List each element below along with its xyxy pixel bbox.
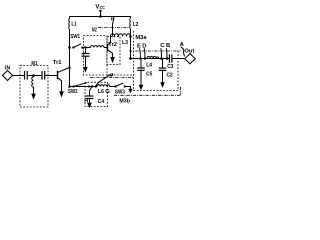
wire pin D (143, 48, 146, 58)
svg-text:C5: C5 (146, 71, 153, 77)
ground Tr2 emitter (110, 57, 115, 63)
svg-text:C2: C2 (167, 72, 173, 78)
box M3a dashed (134, 31, 179, 91)
wire output line left (131, 58, 170, 60)
capacitor M1 second (41, 71, 43, 80)
inductor L2 (129, 17, 132, 37)
wire pin C (160, 48, 163, 58)
pin D label (142, 43, 146, 49)
svg-text:L6: L6 (98, 89, 105, 95)
chip boundary chain lower-left (90, 77, 134, 79)
wire pin F from rail to L3 node (113, 17, 115, 37)
pin A label (180, 42, 185, 48)
M2 label (92, 27, 97, 33)
pin E label (137, 43, 141, 49)
M3a label (135, 35, 147, 41)
node SW1 junction (68, 46, 71, 49)
node L2/L3/F junction (129, 35, 132, 38)
port Out diamond (185, 54, 195, 64)
ground C2 (160, 82, 165, 88)
capacitor C5 (140, 59, 142, 68)
switch SW2 (72, 85, 74, 87)
wire pin A (181, 47, 185, 57)
node SW2 junction (68, 85, 71, 88)
chip boundary chain right (180, 87, 182, 95)
wire pin G curve (96, 73, 113, 86)
node Tr1 collector junction (68, 66, 71, 69)
chip boundary chain bottom (114, 94, 181, 96)
box L6/C4 dashed (85, 82, 108, 106)
switch SW3 (114, 85, 116, 87)
node output left (129, 57, 132, 60)
transistor Tr2 label (108, 42, 117, 48)
wire Vcc stub (100, 11, 102, 17)
transistor Tr1 label (53, 60, 62, 66)
ground Tr1 emitter (59, 91, 64, 97)
capacitor C3 series (168, 54, 170, 62)
wire C3 to Out (172, 58, 185, 60)
capacitor M2 shunt (85, 48, 87, 54)
wire SW1 to M2 (82, 47, 90, 49)
pin C label (160, 43, 165, 49)
wire SW2 to L6 (70, 86, 98, 88)
ground C5 (139, 85, 144, 91)
capacitor M1 first (24, 71, 26, 80)
ground M1 shunt (31, 94, 36, 100)
node M1 junction (32, 74, 35, 77)
switch SW2 label (68, 89, 78, 95)
box Tr2 dashed (107, 37, 120, 65)
inductor M2 series (91, 46, 108, 48)
svg-text:SW3: SW3 (115, 89, 126, 95)
capacitor C4 branch (90, 87, 93, 96)
svg-text:Tr1: Tr1 (53, 60, 62, 66)
svg-text:C3: C3 (167, 64, 174, 70)
node C4 junction (91, 85, 93, 87)
wire M1 to Tr1 base (45, 75, 57, 77)
wire pin E (139, 48, 140, 58)
svg-text:M3a: M3a (135, 35, 147, 41)
pin B label (166, 43, 170, 49)
node G junction (95, 85, 97, 87)
node M2 cap junction (84, 46, 86, 48)
wire SW3 to stub (125, 87, 131, 89)
ground SW3 stub (128, 89, 132, 94)
wire collector node to output line (130, 37, 132, 59)
M2 bottom chain extension (107, 74, 134, 76)
node D (144, 57, 147, 60)
transistor Tr1 (57, 71, 59, 79)
transistor Tr2 (107, 44, 109, 52)
wire pin B (165, 48, 168, 58)
capacitor C2 (162, 59, 164, 68)
svg-text:CC: CC (100, 5, 105, 10)
wire M1 mid (27, 75, 42, 77)
inductor M1 shunt (32, 76, 34, 94)
wire collector node down to SW2 (69, 48, 71, 87)
inductor L6 (97, 85, 116, 87)
port IN diamond (3, 71, 13, 81)
svg-text:SW2: SW2 (68, 89, 78, 95)
svg-text:SW1: SW1 (70, 34, 80, 40)
svg-text:L1: L1 (71, 21, 77, 27)
M3b label (119, 99, 130, 105)
node E (139, 57, 142, 60)
wire top rail (70, 16, 131, 18)
Vcc label (95, 4, 105, 10)
box M1 dashed (20, 66, 48, 108)
svg-text:L2: L2 (133, 22, 138, 28)
node B (166, 57, 169, 60)
switch SW1 label (70, 34, 80, 40)
chip boundary chain top (98, 27, 129, 29)
switch SW3 label (115, 89, 126, 95)
Vcc terminal dot (99, 10, 101, 12)
inductor L4 (147, 56, 159, 58)
node C (160, 57, 163, 60)
svg-text:M2: M2 (92, 27, 97, 33)
chip boundary chain mid (129, 50, 181, 52)
ground C4 (87, 103, 92, 109)
svg-text:IN: IN (5, 65, 10, 71)
switch SW1 (72, 46, 74, 48)
box M2 dashed (84, 36, 108, 76)
svg-text:C4: C4 (98, 99, 105, 105)
svg-text:L3: L3 (122, 40, 129, 46)
svg-text:Out: Out (184, 48, 194, 54)
ground M2 cap (83, 67, 88, 73)
svg-text:A: A (180, 42, 185, 48)
svg-text:L4: L4 (146, 62, 152, 68)
svg-text:M3b: M3b (119, 99, 130, 105)
pin F label (111, 17, 115, 23)
node Vcc rail junction (99, 15, 102, 18)
inductor L3 (111, 34, 131, 37)
svg-text:M1: M1 (31, 61, 38, 67)
inductor L1 (68, 17, 71, 48)
wire IN to M1 (13, 75, 25, 77)
